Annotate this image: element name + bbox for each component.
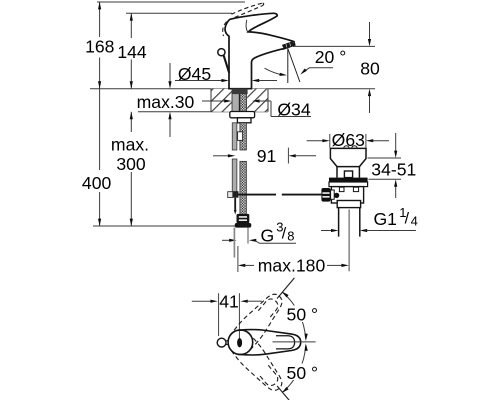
- svg-text:80: 80: [360, 59, 380, 79]
- svg-text:Ø45: Ø45: [178, 64, 211, 84]
- svg-text:Ø34: Ø34: [277, 100, 310, 120]
- svg-text:max.30: max.30: [137, 92, 195, 112]
- svg-text:144: 144: [117, 42, 147, 62]
- svg-text:G1: G1: [374, 209, 397, 229]
- svg-text:400: 400: [82, 173, 112, 193]
- svg-text:max.: max.: [111, 135, 149, 155]
- svg-text:max.180: max.180: [258, 256, 326, 276]
- svg-text:34-51: 34-51: [371, 160, 416, 180]
- svg-text:50 °: 50 °: [287, 305, 319, 325]
- svg-text:20 °: 20 °: [315, 47, 347, 67]
- svg-text:50 °: 50 °: [287, 363, 319, 383]
- svg-text:G: G: [261, 225, 275, 245]
- svg-text:/: /: [405, 211, 410, 228]
- svg-text:/: /: [282, 225, 287, 242]
- svg-text:Ø63: Ø63: [332, 130, 365, 150]
- svg-text:4: 4: [411, 213, 418, 228]
- svg-text:168: 168: [85, 37, 115, 57]
- svg-text:300: 300: [116, 154, 146, 174]
- svg-text:8: 8: [287, 228, 294, 243]
- svg-text:91: 91: [257, 146, 277, 166]
- svg-text:41: 41: [219, 291, 239, 311]
